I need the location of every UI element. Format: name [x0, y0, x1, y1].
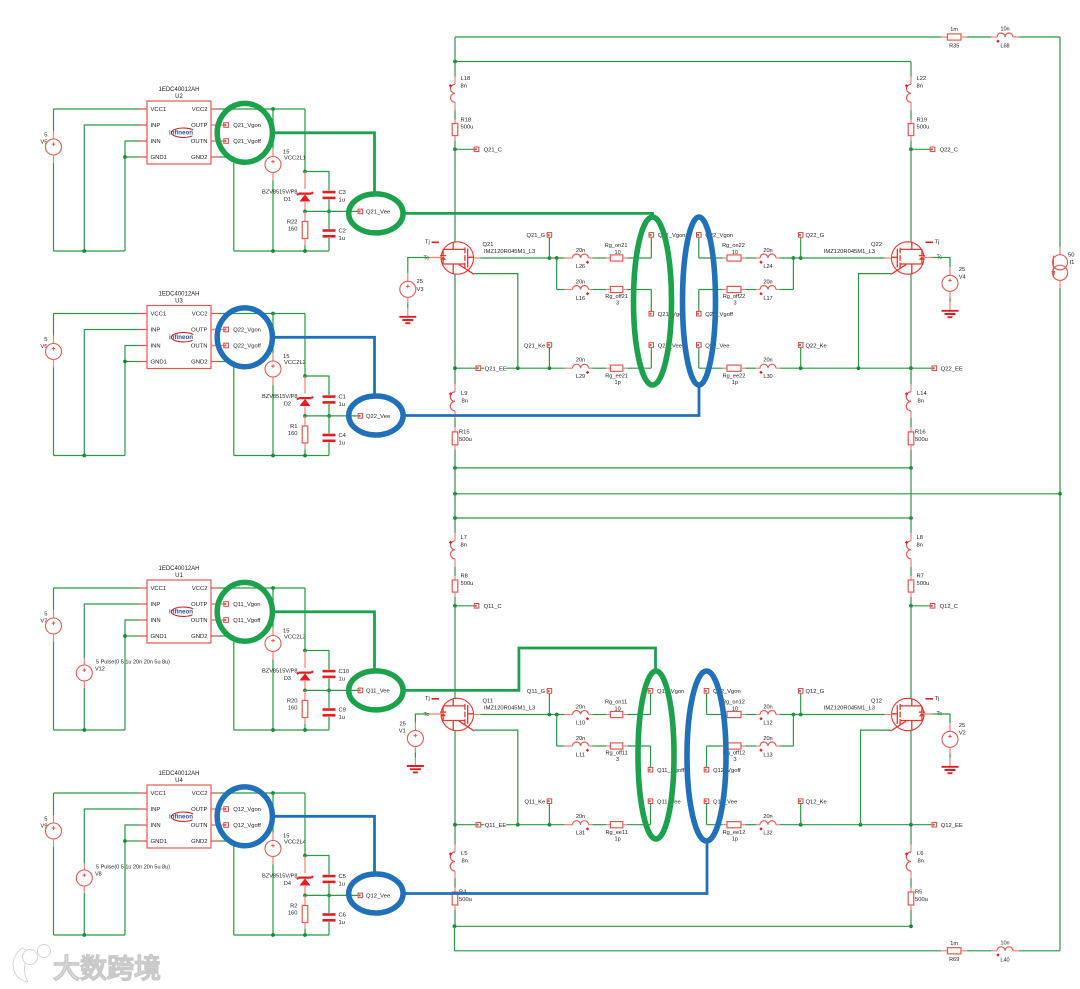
svg-text:BZV8515V/P8: BZV8515V/P8 [262, 873, 297, 879]
svg-text:Q22_C: Q22_C [940, 148, 958, 154]
svg-text:GND2: GND2 [191, 360, 207, 366]
svg-text:Q21_G: Q21_G [526, 233, 545, 239]
svg-text:5 Pulse(0 5 1u 20n 20n 5u 8u): 5 Pulse(0 5 1u 20n 20n 5u 8u) [96, 864, 170, 870]
svg-text:OUTN: OUTN [191, 618, 208, 624]
svg-text:Q21_Vgon: Q21_Vgon [233, 123, 261, 129]
svg-text:1p: 1p [732, 380, 738, 386]
svg-text:INP: INP [151, 602, 161, 608]
svg-text:INN: INN [151, 344, 161, 350]
svg-text:大数跨境: 大数跨境 [53, 954, 161, 984]
svg-text:L9: L9 [461, 391, 467, 397]
svg-text:Q11_Vgon: Q11_Vgon [233, 602, 260, 608]
svg-text:R7: R7 [917, 574, 924, 580]
svg-text:V1: V1 [399, 728, 406, 734]
svg-text:infineon: infineon [169, 334, 193, 341]
svg-text:GND2: GND2 [191, 839, 207, 845]
svg-text:Tj: Tj [425, 240, 430, 246]
svg-text:Q22_EE: Q22_EE [941, 366, 963, 372]
svg-text:L16: L16 [576, 296, 585, 302]
svg-text:L7: L7 [461, 535, 467, 541]
svg-text:INP: INP [151, 328, 161, 334]
svg-text:R5: R5 [915, 890, 922, 896]
svg-text:15: 15 [283, 354, 289, 360]
svg-text:R20: R20 [287, 699, 298, 705]
svg-text:Q11: Q11 [483, 698, 494, 704]
svg-text:L29: L29 [576, 374, 585, 380]
svg-text:500u: 500u [917, 125, 930, 131]
svg-text:R69: R69 [949, 957, 959, 963]
svg-text:R19: R19 [917, 118, 928, 124]
svg-text:Q12_Vgoff: Q12_Vgoff [233, 823, 261, 829]
svg-text:25: 25 [417, 279, 423, 285]
svg-text:5 Pulse(0 5 1u 20n 20n 5u 8u): 5 Pulse(0 5 1u 20n 20n 5u 8u) [96, 659, 170, 665]
svg-text:D4: D4 [284, 881, 291, 887]
svg-text:500u: 500u [461, 581, 474, 587]
svg-text:C5: C5 [339, 874, 346, 880]
svg-text:INP: INP [151, 807, 161, 813]
svg-text:20n: 20n [763, 736, 772, 742]
svg-text:OUTP: OUTP [191, 328, 207, 334]
svg-text:1u: 1u [339, 197, 345, 203]
svg-text:500u: 500u [459, 897, 472, 903]
svg-text:10: 10 [732, 706, 738, 712]
svg-text:Q21: Q21 [483, 242, 494, 248]
svg-text:INN: INN [151, 139, 161, 145]
svg-text:BZV8515V/P8: BZV8515V/P8 [262, 394, 297, 400]
svg-text:C9: C9 [339, 708, 346, 714]
svg-text:1u: 1u [339, 715, 345, 721]
svg-text:Rg_on22: Rg_on22 [722, 243, 745, 249]
svg-text:1m: 1m [950, 27, 958, 33]
svg-text:Q22_Vee: Q22_Vee [705, 343, 729, 349]
svg-text:C10: C10 [339, 669, 350, 675]
svg-text:Q12_Ke: Q12_Ke [806, 800, 827, 806]
svg-text:Rg_on21: Rg_on21 [605, 243, 628, 249]
svg-text:V2: V2 [959, 731, 966, 737]
svg-text:5: 5 [44, 817, 47, 823]
svg-text:Q11_G: Q11_G [527, 689, 546, 695]
svg-text:Q12_C: Q12_C [940, 604, 958, 610]
svg-text:10n: 10n [1000, 27, 1009, 33]
svg-text:Rg_ee22: Rg_ee22 [723, 374, 746, 380]
svg-text:15: 15 [283, 834, 289, 840]
svg-text:Tj: Tj [425, 696, 430, 702]
svg-text:500u: 500u [459, 437, 472, 443]
svg-text:U2: U2 [175, 94, 183, 100]
svg-text:5: 5 [44, 133, 47, 139]
svg-text:V4: V4 [959, 275, 967, 281]
svg-text:VCC2L2: VCC2L2 [284, 360, 306, 366]
svg-text:1EDC40012AH: 1EDC40012AH [158, 771, 199, 777]
svg-text:C4: C4 [339, 433, 347, 439]
svg-text:BZV8515V/P8: BZV8515V/P8 [262, 668, 297, 674]
svg-text:Q11_Vgoff: Q11_Vgoff [233, 618, 261, 624]
svg-text:infineon: infineon [169, 129, 193, 136]
svg-text:infineon: infineon [169, 608, 193, 615]
svg-text:Q12_Vee: Q12_Vee [366, 894, 390, 900]
svg-text:L31: L31 [576, 830, 585, 836]
svg-text:VCC1: VCC1 [151, 107, 167, 113]
svg-text:L32: L32 [763, 830, 772, 836]
svg-text:VCC2L4: VCC2L4 [284, 840, 307, 846]
svg-text:1u: 1u [339, 676, 345, 682]
svg-text:C1: C1 [339, 395, 346, 401]
svg-text:VCC2L3: VCC2L3 [284, 635, 306, 641]
svg-text:I1: I1 [1070, 260, 1075, 266]
svg-text:Rg_off21: Rg_off21 [605, 294, 628, 300]
svg-text:160: 160 [288, 227, 298, 233]
svg-text:L22: L22 [917, 76, 927, 82]
svg-text:R22: R22 [287, 220, 298, 226]
svg-text:15: 15 [283, 150, 289, 156]
svg-text:500u: 500u [915, 897, 928, 903]
svg-text:VCC1: VCC1 [151, 312, 167, 318]
svg-text:15: 15 [283, 629, 289, 635]
svg-text:L40: L40 [1000, 957, 1009, 963]
svg-text:20n: 20n [576, 358, 585, 364]
svg-text:L24: L24 [763, 264, 772, 270]
svg-text:D1: D1 [284, 197, 291, 203]
svg-text:Q21_C: Q21_C [484, 148, 502, 154]
svg-text:L13: L13 [763, 752, 772, 758]
svg-text:GND1: GND1 [151, 360, 167, 366]
svg-text:Q22_G: Q22_G [806, 233, 825, 239]
svg-text:Q11_C: Q11_C [484, 604, 502, 610]
svg-text:20n: 20n [576, 704, 585, 710]
svg-text:1u: 1u [339, 920, 345, 926]
svg-text:BZV8515V/P8: BZV8515V/P8 [262, 189, 297, 195]
svg-text:8n: 8n [917, 84, 923, 90]
svg-text:VCC1: VCC1 [151, 586, 167, 592]
svg-text:1p: 1p [614, 380, 620, 386]
svg-text:500u: 500u [917, 581, 930, 587]
svg-text:10: 10 [732, 250, 738, 256]
svg-text:Q22_Ke: Q22_Ke [806, 343, 827, 349]
svg-text:R35: R35 [949, 43, 959, 49]
svg-text:Q22_Vee: Q22_Vee [366, 414, 390, 420]
svg-text:VCC2: VCC2 [192, 791, 208, 797]
svg-text:R16: R16 [915, 429, 926, 435]
svg-text:8n: 8n [461, 543, 467, 549]
svg-text:10: 10 [614, 706, 620, 712]
svg-text:IMZ120R045M1_L3: IMZ120R045M1_L3 [484, 249, 535, 255]
svg-text:V3: V3 [417, 287, 424, 293]
svg-text:L30: L30 [763, 374, 772, 380]
svg-text:VCC1: VCC1 [151, 791, 167, 797]
svg-text:Q21_Vee: Q21_Vee [366, 210, 390, 216]
svg-text:Q22_Vgon: Q22_Vgon [233, 328, 261, 334]
svg-text:GND2: GND2 [191, 634, 207, 640]
svg-text:GND1: GND1 [151, 839, 167, 845]
svg-text:3: 3 [733, 757, 736, 763]
svg-text:10n: 10n [1000, 940, 1009, 946]
svg-text:D3: D3 [284, 676, 291, 682]
svg-text:3: 3 [616, 757, 619, 763]
svg-text:C6: C6 [339, 913, 346, 919]
svg-text:Q22_Vgoff: Q22_Vgoff [233, 344, 261, 350]
svg-text:GND1: GND1 [151, 155, 167, 161]
svg-text:1u: 1u [339, 881, 345, 887]
svg-text:U4: U4 [175, 778, 183, 784]
svg-text:3: 3 [616, 301, 619, 307]
svg-text:V12: V12 [95, 667, 105, 673]
svg-text:C2: C2 [339, 229, 346, 235]
svg-text:Tj: Tj [935, 240, 940, 246]
svg-text:500u: 500u [915, 437, 928, 443]
svg-text:VCC2L1: VCC2L1 [284, 156, 306, 162]
svg-text:Q12_EE: Q12_EE [941, 823, 963, 829]
svg-text:Rg_on11: Rg_on11 [605, 699, 627, 705]
svg-text:500u: 500u [461, 125, 474, 131]
svg-text:Q22: Q22 [871, 242, 882, 248]
svg-text:25: 25 [959, 267, 965, 273]
svg-text:Q11_Vgoff: Q11_Vgoff [657, 768, 685, 774]
svg-text:1m: 1m [950, 941, 958, 947]
svg-text:L68: L68 [1000, 44, 1009, 50]
svg-text:Q22_Vgoff: Q22_Vgoff [705, 312, 733, 318]
svg-text:U3: U3 [175, 298, 183, 304]
svg-text:25: 25 [399, 721, 405, 727]
svg-text:VCC2: VCC2 [192, 312, 208, 318]
svg-text:Q12_Vgon: Q12_Vgon [233, 807, 261, 813]
svg-text:INN: INN [151, 823, 161, 829]
svg-text:Q21_EE: Q21_EE [485, 366, 507, 372]
svg-text:R1: R1 [290, 424, 297, 430]
svg-text:8n: 8n [918, 859, 924, 865]
svg-text:20n: 20n [763, 704, 772, 710]
svg-text:L14: L14 [917, 391, 927, 397]
svg-text:10: 10 [614, 250, 620, 256]
svg-text:Q12: Q12 [871, 698, 882, 704]
svg-text:8n: 8n [918, 399, 924, 405]
svg-text:L26: L26 [576, 264, 585, 270]
svg-text:1EDC40012AH: 1EDC40012AH [158, 291, 199, 297]
svg-text:20n: 20n [763, 358, 772, 364]
svg-text:Tc: Tc [424, 712, 430, 718]
svg-text:Rg_off11: Rg_off11 [606, 751, 628, 757]
svg-text:1p: 1p [732, 837, 738, 843]
svg-text:1p: 1p [614, 837, 620, 843]
svg-text:IMZ120R045M1_L3: IMZ120R045M1_L3 [824, 705, 875, 711]
svg-text:20n: 20n [763, 814, 772, 820]
svg-text:1u: 1u [339, 440, 345, 446]
svg-text:L8: L8 [917, 535, 923, 541]
svg-text:L11: L11 [576, 752, 585, 758]
svg-text:L12: L12 [763, 720, 772, 726]
svg-text:OUTP: OUTP [191, 123, 207, 129]
svg-text:VCC2: VCC2 [192, 107, 208, 113]
svg-text:OUTN: OUTN [191, 823, 208, 829]
svg-text:160: 160 [288, 706, 298, 712]
svg-text:R18: R18 [461, 118, 472, 124]
svg-text:50: 50 [1068, 253, 1074, 259]
svg-text:Q21_Vgoff: Q21_Vgoff [233, 139, 261, 145]
svg-text:Tj: Tj [935, 696, 940, 702]
svg-text:R8: R8 [461, 574, 468, 580]
svg-text:1EDC40012AH: 1EDC40012AH [158, 87, 199, 93]
svg-text:8n: 8n [461, 84, 467, 90]
svg-text:5: 5 [44, 337, 47, 343]
svg-text:8n: 8n [462, 859, 468, 865]
svg-text:L18: L18 [461, 76, 471, 82]
svg-text:V8: V8 [95, 872, 102, 878]
svg-text:OUTN: OUTN [191, 344, 208, 350]
svg-text:160: 160 [288, 911, 298, 917]
svg-text:IMZ120R045M1_L3: IMZ120R045M1_L3 [824, 249, 875, 255]
svg-text:20n: 20n [576, 736, 585, 742]
svg-text:C3: C3 [339, 190, 346, 196]
svg-text:160: 160 [288, 431, 298, 437]
svg-text:1u: 1u [339, 402, 345, 408]
svg-text:R2: R2 [290, 904, 297, 910]
svg-text:20n: 20n [576, 814, 585, 820]
svg-text:8n: 8n [917, 543, 923, 549]
svg-text:25: 25 [959, 723, 965, 729]
svg-text:R15: R15 [459, 429, 470, 435]
svg-text:L6: L6 [917, 851, 923, 857]
svg-text:Q11_Ke: Q11_Ke [524, 800, 545, 806]
svg-text:OUTP: OUTP [191, 602, 207, 608]
svg-text:IMZ120R045M1_L3: IMZ120R045M1_L3 [484, 705, 535, 711]
svg-text:5: 5 [44, 612, 47, 618]
svg-text:3: 3 [733, 301, 736, 307]
svg-text:Tc: Tc [424, 256, 430, 262]
svg-text:20n: 20n [576, 248, 585, 254]
svg-text:L17: L17 [763, 296, 772, 302]
svg-text:INP: INP [151, 123, 161, 129]
svg-text:INN: INN [151, 618, 161, 624]
svg-text:L5: L5 [461, 851, 467, 857]
svg-text:Rg_ee12: Rg_ee12 [723, 830, 746, 836]
svg-text:Q21_Ke: Q21_Ke [524, 343, 545, 349]
svg-text:Q12_G: Q12_G [806, 689, 825, 695]
svg-text:VCC2: VCC2 [192, 586, 208, 592]
svg-text:GND1: GND1 [151, 634, 167, 640]
svg-text:1EDC40012AH: 1EDC40012AH [158, 566, 199, 572]
svg-text:D2: D2 [284, 402, 291, 408]
svg-text:Rg_on12: Rg_on12 [722, 699, 745, 705]
svg-text:Q11_EE: Q11_EE [485, 823, 507, 829]
svg-text:20n: 20n [763, 279, 772, 285]
svg-text:8n: 8n [462, 399, 468, 405]
svg-text:infineon: infineon [169, 813, 193, 820]
svg-text:Rg_off22: Rg_off22 [723, 294, 746, 300]
svg-text:GND2: GND2 [191, 155, 207, 161]
svg-text:OUTN: OUTN [191, 139, 208, 145]
svg-text:OUTP: OUTP [191, 807, 207, 813]
svg-text:U1: U1 [175, 573, 183, 579]
svg-text:Rg_ee21: Rg_ee21 [605, 374, 628, 380]
svg-text:20n: 20n [576, 279, 585, 285]
svg-text:20n: 20n [763, 248, 772, 254]
svg-text:Q11_Vee: Q11_Vee [366, 689, 390, 695]
svg-text:1u: 1u [339, 236, 345, 242]
svg-text:L10: L10 [576, 720, 585, 726]
svg-text:Rg_ee11: Rg_ee11 [605, 830, 627, 836]
